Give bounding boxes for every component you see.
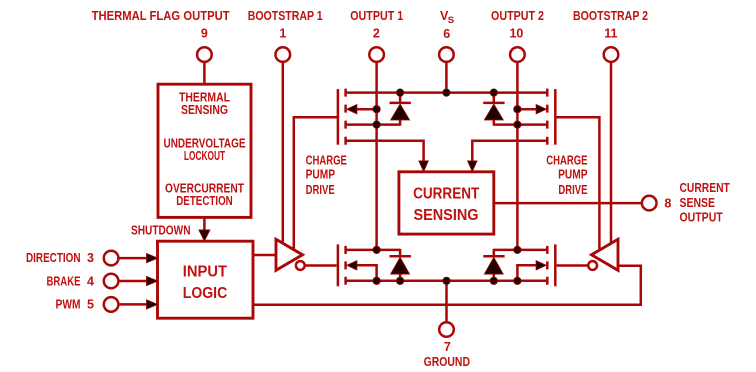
transistor top-right source stub <box>494 123 548 126</box>
transistor bottom-right body arrow <box>536 261 546 270</box>
wire output1 vertical <box>375 62 378 250</box>
svg-text:8: 8 <box>664 196 671 210</box>
junction dot output2 source <box>514 121 521 128</box>
svg-text:9: 9 <box>201 27 208 41</box>
pin pwm circle <box>104 297 119 312</box>
svg-text:CURRENT: CURRENT <box>413 185 479 202</box>
wire right driver to gate <box>557 264 589 267</box>
pin 2 circle <box>369 47 384 62</box>
transistor bottom-left body arrow <box>347 261 357 270</box>
diode top-right connector bottom <box>493 120 496 126</box>
svg-text:DIRECTION: DIRECTION <box>26 251 81 265</box>
svg-text:LOCKOUT: LOCKOUT <box>184 149 226 163</box>
junction dot output1 bottom drain <box>373 246 380 253</box>
svg-text:CHARGE: CHARGE <box>546 154 587 168</box>
diode top-left connector top <box>399 92 402 103</box>
junction dot vs rail left diode <box>397 89 404 96</box>
bubble left driver <box>296 261 305 270</box>
arrow shutdown <box>199 230 210 241</box>
pin brake circle <box>104 274 119 289</box>
svg-text:BOOTSTRAP 2: BOOTSTRAP 2 <box>573 9 648 23</box>
junction dot output1 body <box>373 106 380 113</box>
pin 11 circle <box>604 47 619 62</box>
junction dot rail bottom-left body <box>373 277 380 284</box>
input logic block <box>158 241 254 318</box>
diode top-left connector bottom <box>399 120 402 126</box>
arrowhead brake <box>147 277 158 286</box>
wire input logic to left driver <box>253 254 276 257</box>
svg-text:11: 11 <box>604 27 617 41</box>
wire current sense output <box>494 202 642 205</box>
svg-text:PWM: PWM <box>56 298 81 312</box>
diode bottom-right connector bottom <box>493 274 496 282</box>
wire bootstrap2 vertical <box>610 62 613 244</box>
diode bottom-left cathode bar <box>390 255 411 258</box>
transistor top-right channel <box>546 89 549 146</box>
junction dot rail ground <box>443 277 450 284</box>
diode top-right body <box>485 104 504 120</box>
svg-text:BRAKE: BRAKE <box>47 274 81 288</box>
svg-text:INPUT: INPUT <box>183 263 227 280</box>
pin 9 circle <box>197 47 212 62</box>
junction dot output2 bottom drain <box>514 246 521 253</box>
svg-text:OUTPUT 1: OUTPUT 1 <box>350 9 403 23</box>
svg-text:GROUND: GROUND <box>424 355 470 369</box>
wire output2 vertical <box>516 62 519 250</box>
bubble right driver <box>588 261 597 270</box>
svg-text:LOGIC: LOGIC <box>183 285 228 302</box>
junction dot rail bottom-right body <box>514 277 521 284</box>
wire shutdown <box>203 217 206 237</box>
svg-text:THERMAL FLAG OUTPUT: THERMAL FLAG OUTPUT <box>92 9 230 23</box>
svg-text:PUMP: PUMP <box>558 168 587 182</box>
arrowhead pwm <box>147 300 158 309</box>
svg-text:SENSING: SENSING <box>413 207 478 224</box>
transistor top-left body arrow <box>347 105 357 114</box>
svg-text:OUTPUT 2: OUTPUT 2 <box>491 9 544 23</box>
junction dot vs rail right diode <box>490 89 497 96</box>
transistor bottom-left channel <box>344 246 347 288</box>
svg-text:2: 2 <box>373 27 380 41</box>
wire Vs rail <box>346 91 548 94</box>
wire pwm arrow <box>119 303 151 306</box>
svg-text:10: 10 <box>509 27 523 41</box>
pin 8 circle <box>642 196 657 211</box>
pin direction circle <box>104 251 119 266</box>
diode bottom-right connector top <box>493 249 496 256</box>
diode top-right connector top <box>493 92 496 103</box>
junction dot rail right diode anode <box>490 277 497 284</box>
arrowhead direction <box>147 254 158 263</box>
pin 7 ground circle <box>439 322 454 337</box>
diode bottom-left connector top <box>399 249 402 256</box>
diode top-left cathode bar <box>390 102 411 105</box>
transistor bottom-right channel <box>546 246 549 288</box>
transistor bottom-right gate bar <box>554 244 557 286</box>
junction dot output1 source <box>373 121 380 128</box>
diode bottom-left connector bottom <box>399 274 402 282</box>
wire vs to rail <box>445 62 448 93</box>
svg-text:DETECTION: DETECTION <box>176 194 233 208</box>
svg-text:SENSE: SENSE <box>680 196 716 210</box>
transistor top-left sense stub <box>346 141 424 168</box>
wire top-right gate drive <box>555 117 599 250</box>
pin 1 circle <box>276 47 291 62</box>
svg-text:DRIVE: DRIVE <box>558 183 587 197</box>
transistor top-left gate bar <box>337 89 340 145</box>
pin 10 circle <box>510 47 525 62</box>
transistor top-left channel <box>344 89 347 146</box>
wire bottom source rail <box>346 280 548 283</box>
current sensing block <box>399 172 494 234</box>
diode bottom-left body <box>391 258 410 275</box>
transistor bottom-right drain stub <box>494 249 548 252</box>
thermal sensing block <box>158 84 251 217</box>
svg-text:OUTPUT: OUTPUT <box>680 211 724 225</box>
diode bottom-right cathode bar <box>483 255 504 258</box>
svg-text:6: 6 <box>443 27 450 41</box>
junction dot output2 body <box>514 106 521 113</box>
svg-text:SENSING: SENSING <box>181 103 228 117</box>
svg-text:CHARGE: CHARGE <box>306 154 347 168</box>
transistor bottom-right body stub <box>517 265 545 281</box>
transistor top-right body stub <box>517 108 545 111</box>
transistor top-left source stub <box>346 123 401 126</box>
arrow sense right into current sensing <box>468 161 477 171</box>
wire bootstrap1 vertical <box>282 62 285 244</box>
svg-text:7: 7 <box>444 340 451 354</box>
wire left driver to gate <box>305 264 337 267</box>
wire input logic to right driver <box>253 266 641 305</box>
svg-text:SHUTDOWN: SHUTDOWN <box>131 223 191 237</box>
svg-text:PUMP: PUMP <box>306 168 335 182</box>
op-amp right driver triangle <box>592 239 619 270</box>
svg-text:CURRENT: CURRENT <box>680 181 731 195</box>
wire pin9 to thermal box <box>203 62 206 84</box>
diode top-right cathode bar <box>483 102 504 105</box>
junction dot vs rail center <box>443 89 450 96</box>
transistor top-right gate bar <box>554 89 557 145</box>
svg-text:3: 3 <box>87 251 94 265</box>
transistor top-right sense stub <box>472 141 547 168</box>
arrow sense left into current sensing <box>419 161 428 171</box>
svg-text:1: 1 <box>279 27 286 41</box>
transistor bottom-left drain stub <box>346 249 401 252</box>
wire top-left gate drive <box>294 117 338 250</box>
diode top-left body <box>391 104 410 120</box>
svg-text:4: 4 <box>87 274 94 288</box>
op-amp left driver triangle <box>276 239 303 270</box>
junction dot rail left diode anode <box>397 277 404 284</box>
transistor top-right body arrow <box>536 105 546 114</box>
pin 6 circle <box>439 47 454 62</box>
transistor top-left body stub <box>348 108 377 111</box>
wire ground tap <box>445 281 448 322</box>
svg-text:DRIVE: DRIVE <box>306 183 335 197</box>
transistor bottom-left gate bar <box>337 244 340 286</box>
transistor bottom-left body stub <box>348 265 377 281</box>
svg-text:S: S <box>448 15 454 26</box>
svg-text:BOOTSTRAP 1: BOOTSTRAP 1 <box>248 9 323 23</box>
wire brake arrow <box>119 280 151 283</box>
wire direction arrow <box>119 257 151 260</box>
svg-text:5: 5 <box>87 298 94 312</box>
diode bottom-right body <box>485 258 504 275</box>
